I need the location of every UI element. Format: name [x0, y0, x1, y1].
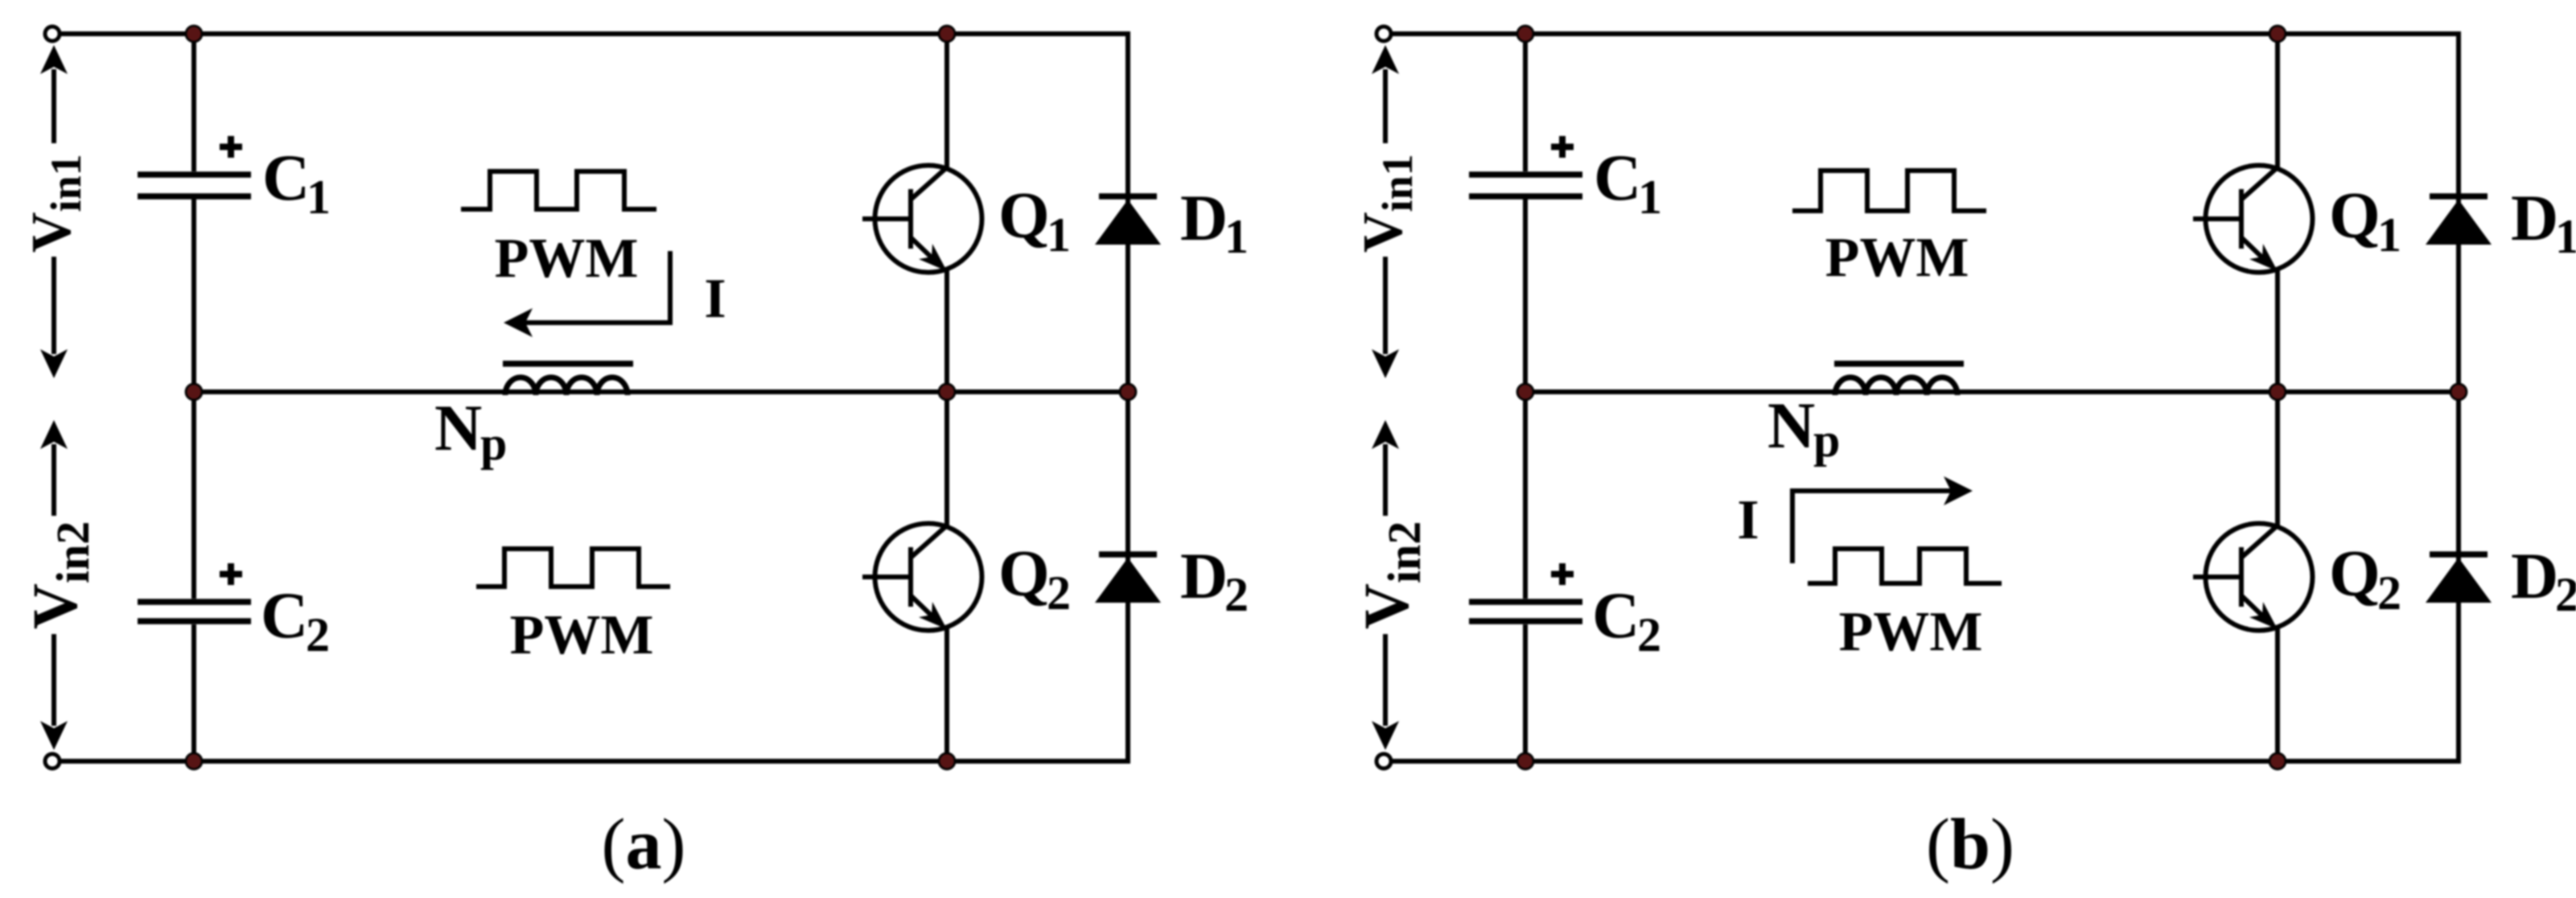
junction dot bottom transistor (b): [2269, 753, 2286, 769]
label D2 (b): [2511, 539, 2576, 621]
junction dot middle diode (b): [2450, 384, 2467, 400]
svg-text:PWM: PWM: [1839, 601, 1983, 663]
plus sign of C2 (b): [1551, 563, 1574, 585]
svg-text:p: p: [1813, 414, 1840, 467]
svg-text:N: N: [434, 391, 482, 464]
junction dot top capacitor (b): [1517, 26, 1533, 42]
voltage arrow Vin2 (a): [40, 420, 68, 750]
svg-text:PWM: PWM: [510, 604, 654, 666]
voltage arrow Vin2 (b): [1372, 420, 1399, 750]
svg-text:Q: Q: [998, 537, 1050, 610]
diode D1 (a): [1095, 196, 1161, 245]
wire: top rail, right diode-branch rail and bottom rail (a): [52, 34, 1128, 761]
svg-text:D: D: [1180, 181, 1228, 254]
svg-text:Q: Q: [2329, 179, 2381, 252]
label Np (a): [434, 391, 507, 470]
svg-text:2: 2: [1047, 566, 1071, 620]
PWM waveform top (b): [1792, 171, 1986, 211]
svg-text:C: C: [1594, 141, 1641, 214]
svg-text:1: 1: [2555, 210, 2576, 263]
svg-text:I: I: [1737, 489, 1759, 551]
svg-text:2: 2: [2377, 566, 2401, 620]
current arrow I (b): [1792, 476, 1973, 563]
label Q2 (a): [998, 537, 1071, 620]
input terminal top (a): [45, 27, 60, 41]
wire: top rail, right diode-branch rail and bottom rail (b): [1384, 34, 2459, 761]
diode D2 (b): [2426, 554, 2492, 603]
label C2 (b): [1592, 579, 1661, 661]
PWM waveform bottom (b): [1808, 549, 2002, 583]
current arrow I (a): [504, 251, 670, 337]
svg-text:(a): (a): [602, 805, 686, 884]
svg-text:C: C: [262, 141, 310, 214]
svg-text:D: D: [2511, 539, 2558, 612]
inductor Np coils (b): [1835, 377, 1957, 395]
input terminal bottom (a): [45, 754, 60, 768]
input terminal top (b): [1376, 27, 1391, 41]
transistor Q1 (b): [2193, 166, 2313, 273]
wire: capacitor branch middle segment (a): [191, 197, 196, 599]
PWM waveform top (a): [461, 171, 656, 209]
label Q1 (a): [998, 179, 1071, 262]
capacitor C2 (a): [138, 602, 251, 621]
transistor Q1 (a): [862, 166, 982, 273]
svg-text:1: 1: [307, 171, 331, 224]
wire: middle rail (a): [194, 389, 1128, 394]
junction dot middle capacitor (b): [1517, 384, 1533, 400]
svg-text:1: 1: [1047, 208, 1071, 262]
svg-text:Q: Q: [2329, 537, 2381, 610]
wire: capacitor branch lower segment (b): [1523, 624, 1528, 761]
label C1 (a): [262, 141, 331, 224]
svg-text:N: N: [1767, 389, 1815, 462]
svg-text:C: C: [1592, 579, 1640, 652]
junction dot bottom transistor (a): [939, 753, 955, 769]
junction dot top transistor branch (a): [939, 26, 955, 42]
capacitor C1 (a): [138, 175, 251, 196]
input terminal bottom (b): [1376, 754, 1391, 768]
diode D1 (b): [2426, 196, 2492, 245]
svg-text:I: I: [704, 268, 726, 330]
junction dot top capacitor (a): [186, 26, 202, 42]
voltage arrow Vin1 (b): [1372, 45, 1399, 378]
inductor Np core bar (b): [1834, 360, 1964, 367]
label Q1 (b): [2329, 179, 2401, 262]
inductor Np coils (a): [505, 377, 628, 395]
transistor Q2 (b): [2193, 524, 2313, 631]
junction dot bottom capacitor (b): [1517, 753, 1533, 769]
diode D2 (a): [1095, 554, 1161, 603]
svg-text:D: D: [2511, 181, 2558, 254]
capacitor C1 (b): [1469, 175, 1582, 196]
wire: capacitor branch lower segment (a): [191, 624, 196, 761]
label Np (b): [1767, 389, 1840, 467]
svg-text:C: C: [261, 579, 308, 652]
svg-text:1: 1: [1224, 210, 1249, 263]
transistor Q2 (a): [862, 524, 982, 631]
svg-text:2: 2: [1637, 608, 1661, 661]
svg-text:Q: Q: [998, 179, 1050, 252]
PWM waveform bottom (a): [476, 549, 670, 587]
wire: capacitor branch upper segment (b): [1523, 34, 1528, 171]
svg-text:1: 1: [2377, 208, 2401, 262]
label Q2 (b): [2329, 537, 2401, 620]
label C1 (b): [1594, 141, 1662, 224]
label D1 (a): [1180, 181, 1249, 263]
wire: capacitor branch middle segment (b): [1523, 197, 1528, 599]
wire: transistor branch (a): [944, 34, 949, 761]
junction dot middle transistor (b): [2269, 384, 2286, 400]
svg-text:D: D: [1180, 539, 1228, 612]
junction dot middle diode (a): [1120, 384, 1136, 400]
inductor Np core bar (a): [503, 360, 633, 367]
label D2 (a): [1180, 539, 1249, 621]
wire: transistor branch (b): [2275, 34, 2280, 761]
wire: capacitor branch upper segment (a): [191, 34, 196, 171]
junction dot top transistor branch (b): [2269, 26, 2286, 42]
svg-text:p: p: [480, 417, 507, 470]
svg-text:2: 2: [1224, 568, 1249, 621]
plus sign of C2 (a): [220, 563, 242, 585]
svg-text:PWM: PWM: [495, 228, 639, 290]
svg-text:1: 1: [1638, 171, 1662, 224]
label C2 (a): [261, 579, 330, 661]
capacitor C2 (b): [1469, 602, 1582, 621]
wire: middle rail (b): [1525, 389, 2459, 394]
plus sign of C1 (a): [220, 136, 242, 158]
svg-text:2: 2: [2555, 568, 2576, 621]
label D1 (b): [2511, 181, 2576, 263]
junction dot middle transistor (a): [939, 384, 955, 400]
svg-text:2: 2: [306, 608, 330, 661]
plus sign of C1 (b): [1551, 136, 1574, 158]
svg-text:(b): (b): [1926, 805, 2014, 884]
svg-text:PWM: PWM: [1825, 227, 1969, 289]
junction dot bottom capacitor (a): [186, 753, 202, 769]
voltage arrow Vin1 (a): [40, 45, 68, 378]
junction dot middle capacitor (a): [186, 384, 202, 400]
